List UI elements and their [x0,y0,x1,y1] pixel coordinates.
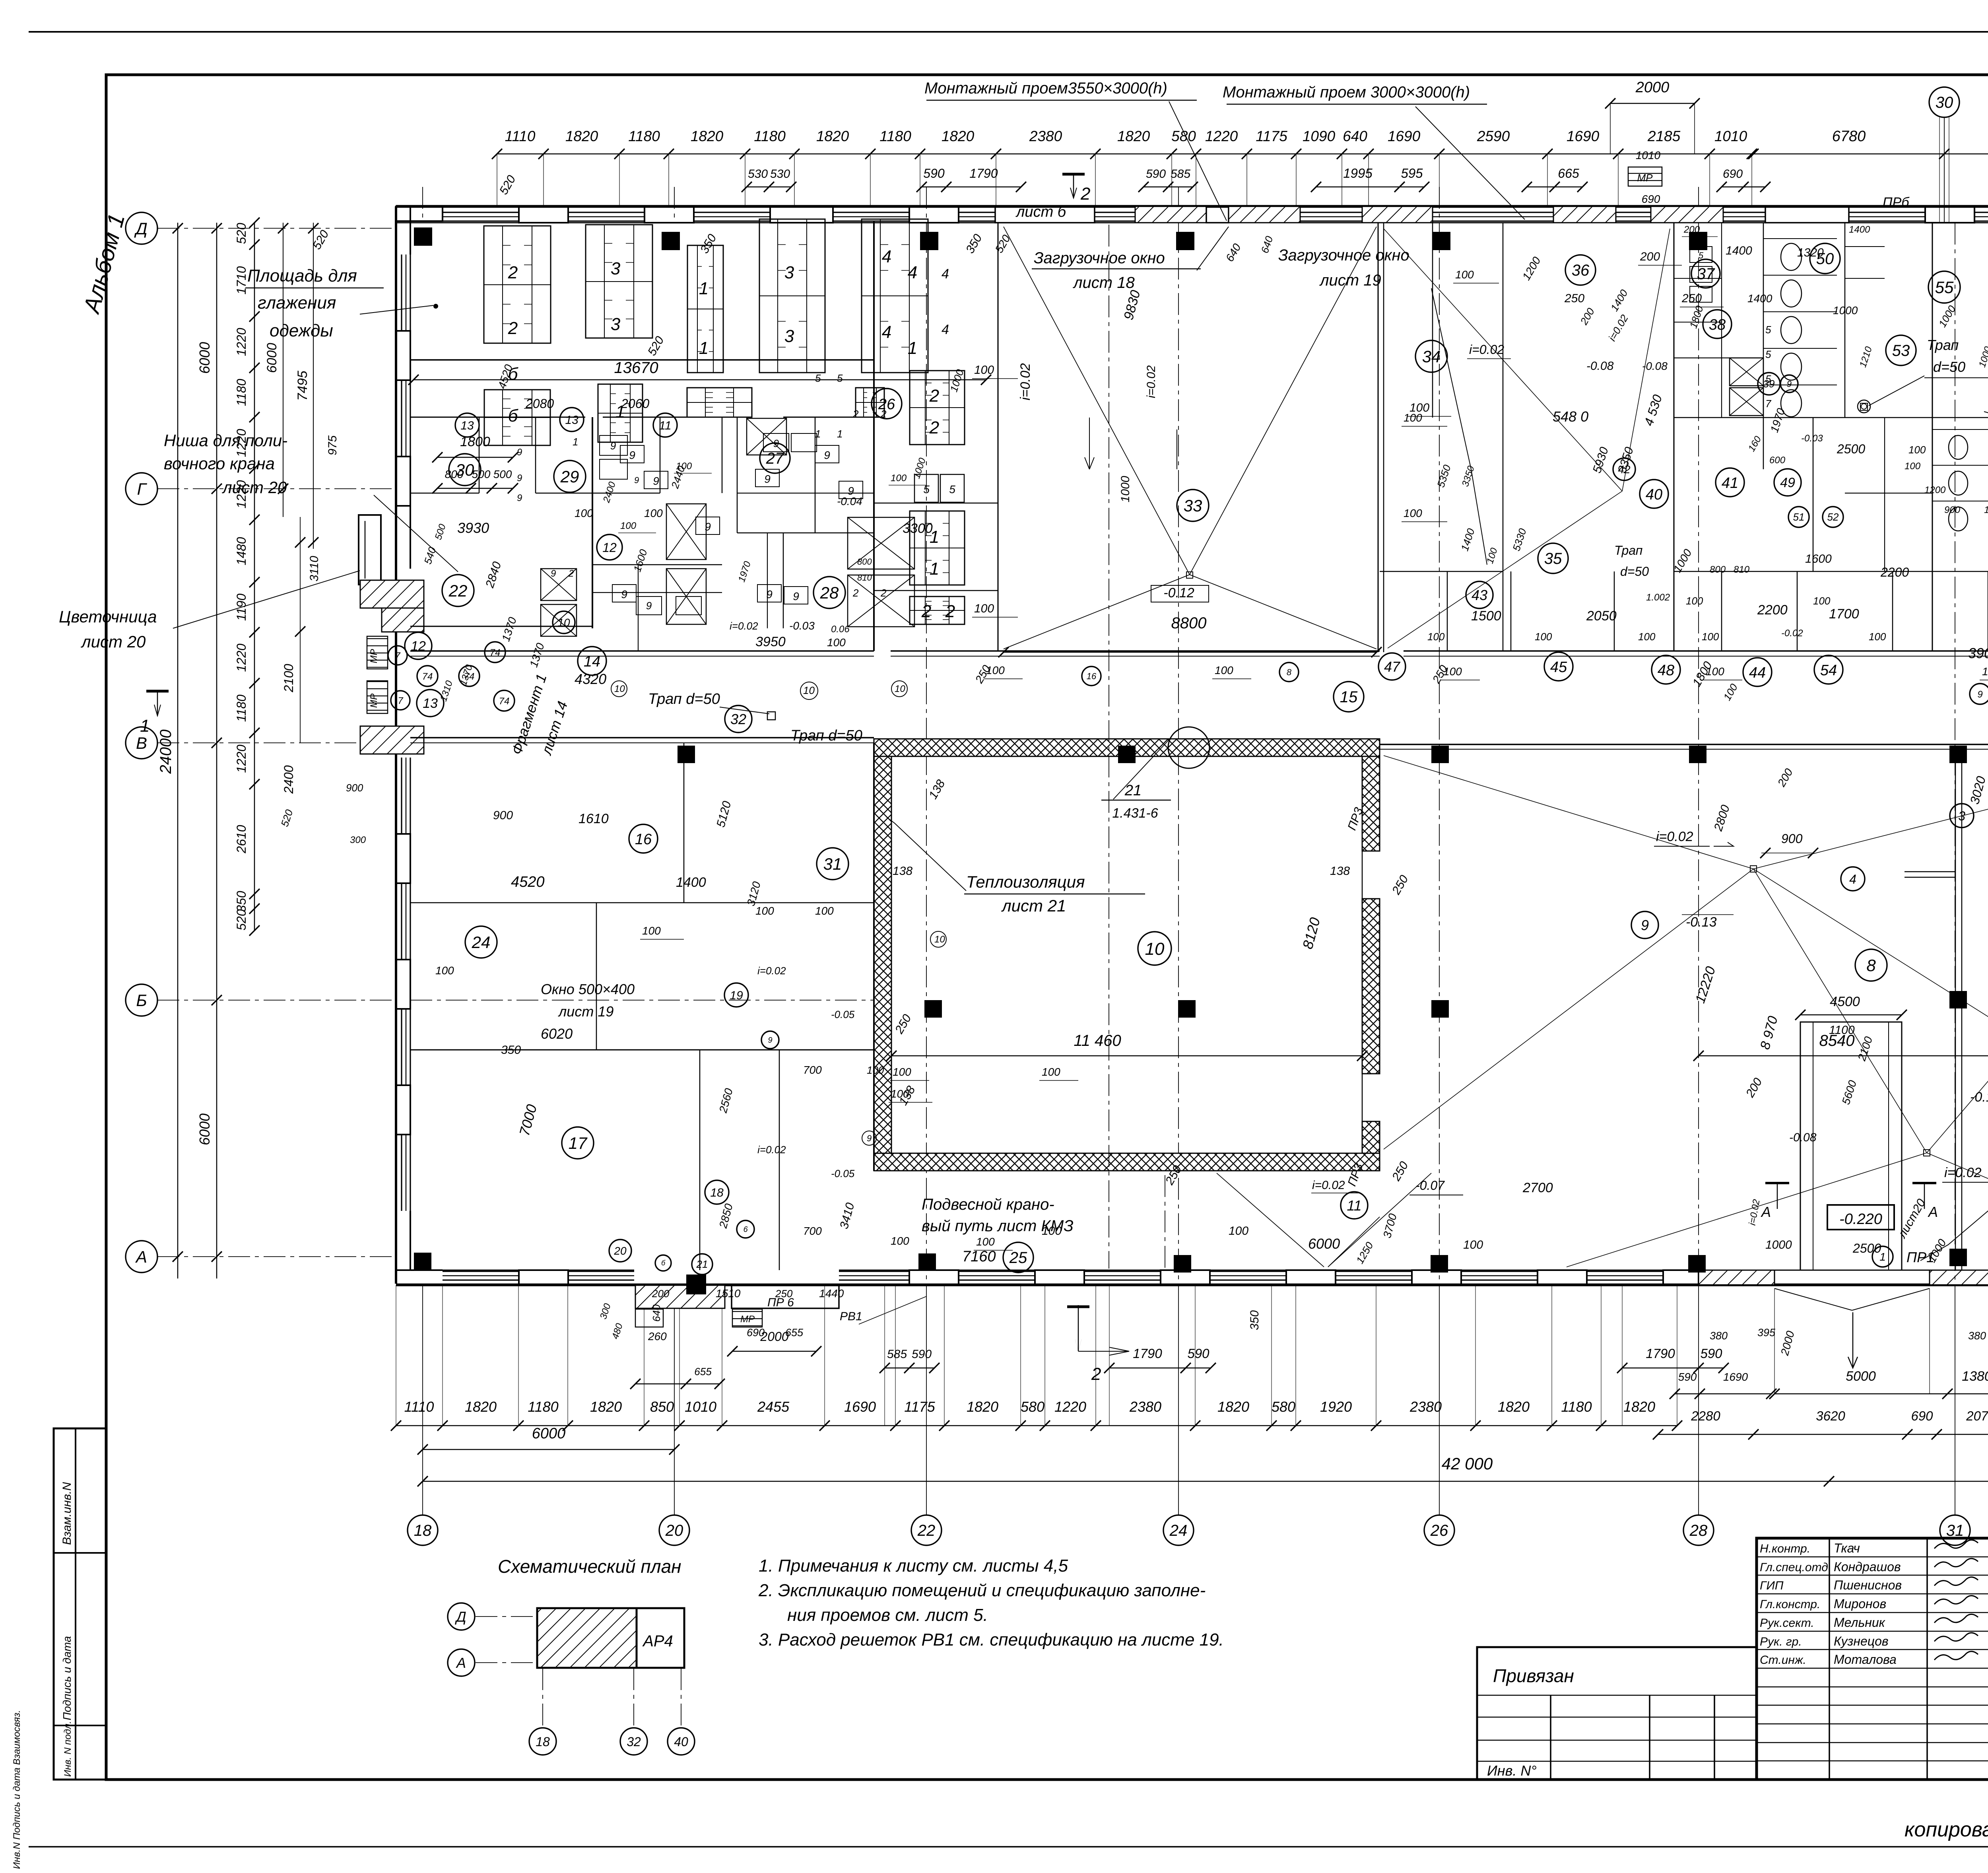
svg-text:1380: 1380 [1962,1369,1988,1384]
svg-text:-0.13: -0.13 [1686,915,1717,930]
svg-text:580: 580 [1021,1399,1044,1415]
svg-text:900: 900 [1944,505,1961,515]
svg-text:i=0.02: i=0.02 [730,620,758,632]
svg-text:Теплоизоляция: Теплоизоляция [966,872,1085,891]
svg-text:1820: 1820 [1623,1399,1655,1415]
svg-text:1690: 1690 [1723,1371,1748,1383]
room 34 structure [1432,223,1433,418]
svg-text:350: 350 [501,1043,521,1057]
svg-text:9: 9 [764,473,771,485]
svg-text:900: 900 [493,809,513,822]
svg-text:9: 9 [1787,379,1792,389]
vertical axis dash-dot lines [926,187,927,1284]
svg-text:2280: 2280 [1691,1409,1720,1423]
top axis circle 30 [1929,87,1959,117]
sanitary room circles [1565,255,1596,285]
svg-text:Моталова: Моталова [1834,1652,1897,1667]
room circles 16/31/24/17/32 [629,824,658,853]
svg-text:4520: 4520 [511,874,545,890]
niche dim 1800 chain [437,457,513,458]
corridor lower wall left [410,737,874,738]
svg-text:43: 43 [1472,587,1487,603]
svg-text:9: 9 [1977,689,1982,700]
room 33 walls [998,223,999,651]
svg-text:100: 100 [1215,664,1233,676]
svg-text:Инв.N Подпись и дата Взаимосвя: Инв.N Подпись и дата Взаимосвяз. [12,1710,22,1869]
svg-text:1820: 1820 [465,1399,497,1415]
svg-text:1010: 1010 [1714,128,1747,144]
svg-text:Ткач: Ткач [1834,1541,1860,1555]
svg-text:АР4: АР4 [642,1632,673,1650]
svg-text:1180: 1180 [754,128,786,144]
room 33 dims [1004,652,1376,653]
svg-text:585: 585 [887,1348,907,1361]
svg-text:20: 20 [613,1245,627,1257]
svg-text:-0.08: -0.08 [1642,360,1668,372]
svg-text:Инв. N подл.: Инв. N подл. [62,1721,73,1777]
svg-text:9: 9 [621,588,627,600]
svg-text:16: 16 [635,831,652,848]
svg-text:2: 2 [880,587,887,599]
svg-text:41: 41 [1722,475,1738,492]
svg-text:3: 3 [784,263,794,282]
svg-text:74: 74 [422,671,433,682]
svg-text:6780: 6780 [1832,128,1866,145]
chamber dim 11460 [891,1055,1362,1057]
svg-text:520: 520 [234,223,248,244]
svg-text:2400: 2400 [282,765,296,794]
svg-text:Инв. N°: Инв. N° [1487,1762,1537,1779]
svg-text:1220: 1220 [1205,128,1238,144]
left letter axis circles [126,212,157,244]
svg-text:22: 22 [448,581,468,600]
svg-text:8800: 8800 [1171,614,1207,632]
svg-text:1600: 1600 [1805,552,1832,565]
svg-text:2500: 2500 [1852,1241,1881,1255]
svg-text:1400: 1400 [1726,244,1752,257]
13670 dim line [414,379,986,381]
svg-text:Площадь для: Площадь для [247,266,357,286]
svg-text:1: 1 [908,338,917,358]
svg-text:37: 37 [1697,265,1715,283]
svg-text:28: 28 [1689,1522,1708,1539]
small 9 shelf boxes [620,445,644,463]
svg-text:200: 200 [1640,250,1660,263]
svg-text:1700: 1700 [1829,606,1859,622]
svg-text:4: 4 [1849,872,1856,886]
svg-text:2700: 2700 [1522,1180,1553,1195]
svg-text:29: 29 [560,467,579,486]
svg-text:4: 4 [882,247,891,266]
svg-text:9: 9 [629,449,635,461]
svg-text:24: 24 [472,933,491,952]
svg-text:лист 20: лист 20 [221,478,287,497]
svg-text:250: 250 [775,1288,793,1300]
svg-text:1820: 1820 [816,128,849,144]
svg-text:i=0.02: i=0.02 [1944,1165,1982,1180]
svg-text:8: 8 [1287,667,1292,677]
room 11 labels [1341,1192,1368,1219]
svg-text:Рук.сект.: Рук.сект. [1760,1617,1814,1630]
bottom axis circles 18-32 [408,1515,438,1545]
svg-text:2050: 2050 [1586,608,1617,624]
svg-text:12: 12 [602,540,617,555]
svg-text:5: 5 [837,372,843,384]
svg-text:1820: 1820 [590,1399,622,1415]
amenity block partitions [873,221,875,651]
svg-text:-0.08: -0.08 [1586,359,1614,373]
svg-text:100: 100 [1686,595,1703,607]
flower niche [359,515,381,585]
svg-text:4: 4 [882,323,891,342]
svg-text:33: 33 [1184,496,1202,515]
svg-text:100: 100 [815,905,834,917]
svg-text:9: 9 [793,590,799,602]
svg-text:2: 2 [929,386,939,406]
svg-text:лист 18: лист 18 [1073,274,1135,291]
letter axis lines inside plan [410,742,874,743]
svg-text:1820: 1820 [1117,128,1150,144]
svg-text:1820: 1820 [565,128,598,144]
svg-text:1180: 1180 [1561,1399,1592,1415]
svg-text:i=0.02: i=0.02 [757,1144,786,1156]
svg-text:2500: 2500 [1837,442,1865,456]
svg-text:690: 690 [1642,193,1660,205]
svg-text:10: 10 [934,934,945,945]
svg-text:2070: 2070 [1966,1409,1988,1423]
svg-text:11: 11 [1347,1197,1361,1214]
schematic axis 18 [529,1728,556,1755]
svg-text:1500: 1500 [1471,608,1501,624]
washroom fixtures with X [666,504,706,560]
svg-text:5: 5 [1765,324,1771,336]
svg-text:9: 9 [768,1036,772,1045]
columns top row [414,227,432,246]
svg-text:Пшениснов: Пшениснов [1834,1578,1902,1592]
svg-text:300: 300 [350,835,366,845]
svg-text:Рук. гр.: Рук. гр. [1760,1635,1802,1648]
svg-text:Гл.спец.отд: Гл.спец.отд [1760,1561,1828,1574]
svg-text:2: 2 [852,587,859,599]
svg-text:1440: 1440 [819,1287,844,1300]
svg-text:22: 22 [917,1522,936,1539]
svg-text:100: 100 [1229,1224,1248,1238]
svg-text:100: 100 [867,1064,884,1076]
top dimension chain row 1 [497,153,1752,155]
bottom dim chain row 1 [396,1425,1677,1426]
north outer wall [396,205,1988,208]
svg-text:100: 100 [435,964,454,977]
svg-text:27: 27 [766,450,784,467]
svg-text:100: 100 [1042,1066,1060,1078]
svg-text:138: 138 [1330,865,1350,878]
svg-text:138: 138 [893,865,912,878]
svg-text:-0.12: -0.12 [1163,585,1194,600]
schematic axis 32 [620,1728,647,1755]
svg-text:548 0: 548 0 [1553,408,1588,425]
svg-text:10: 10 [1145,939,1165,959]
svg-text:100: 100 [1535,631,1552,643]
svg-text:d=50: d=50 [1933,359,1965,375]
svg-text:35: 35 [1544,550,1562,567]
room 33 circle [1177,490,1209,521]
room 34 slope [1384,229,1622,491]
svg-text:9: 9 [551,568,556,579]
svg-text:100: 100 [1455,268,1474,281]
svg-text:100: 100 [1813,595,1831,607]
toilet stalls [1763,238,1837,239]
svg-text:580: 580 [1272,1399,1295,1415]
svg-text:4: 4 [942,322,949,337]
svg-text:590: 590 [1678,1371,1697,1383]
svg-text:100: 100 [1463,1238,1483,1251]
rooms 16/31 partitions [873,743,875,1171]
svg-text:640: 640 [650,1304,662,1322]
svg-text:250: 250 [1681,292,1702,305]
svg-text:4320: 4320 [575,671,606,687]
personnel table columns [1829,1538,1830,1780]
svg-text:590: 590 [1146,167,1166,181]
svg-text:-0.08: -0.08 [1789,1131,1817,1144]
svg-text:9: 9 [517,493,522,503]
svg-text:1220: 1220 [234,744,248,773]
svg-text:40: 40 [1646,486,1662,503]
title block outer [1757,1538,1988,1780]
svg-text:13: 13 [565,414,579,427]
svg-text:9: 9 [773,437,779,449]
svg-text:19: 19 [730,989,743,1002]
svg-text:1690: 1690 [1567,128,1600,144]
svg-text:1790: 1790 [1646,1346,1675,1361]
svg-text:-0.03: -0.03 [789,620,815,632]
svg-text:500: 500 [493,468,512,480]
personnel table rows [1757,1556,1988,1558]
svg-text:590: 590 [923,166,945,181]
svg-text:лист 19: лист 19 [1319,272,1381,289]
left detailed chain [254,223,255,931]
svg-text:850: 850 [650,1399,674,1415]
svg-text:-0.220: -0.220 [1839,1211,1882,1228]
svg-text:3620: 3620 [1816,1409,1845,1423]
svg-text:10: 10 [614,684,625,694]
svg-text:40: 40 [674,1735,688,1749]
svg-text:Подвесной крано-: Подвесной крано- [922,1196,1054,1213]
svg-text:5: 5 [949,483,955,495]
svg-text:200: 200 [652,1288,670,1300]
svg-text:100: 100 [1908,444,1926,456]
svg-text:2185: 2185 [1647,128,1681,144]
svg-text:Кузнецов: Кузнецов [1834,1634,1889,1648]
svg-text:6000: 6000 [196,1113,213,1145]
svg-text:1610: 1610 [579,811,609,826]
svg-text:100: 100 [1042,1224,1062,1238]
svg-text:2: 2 [508,319,518,338]
svg-text:32: 32 [627,1735,641,1749]
corridor lower wall right [1380,744,1988,745]
south tambour [635,1285,725,1308]
svg-text:Ст.инж.: Ст.инж. [1760,1653,1806,1667]
corridor circle 15 [1334,682,1364,712]
svg-text:Д: Д [134,219,148,238]
room 25 crane dash line [1165,1175,1165,1269]
room 33 axis dashdot [1109,225,1109,1269]
svg-text:1820: 1820 [967,1399,998,1415]
svg-text:2: 2 [945,602,955,621]
svg-text:4: 4 [908,263,917,282]
svg-text:А: А [456,1655,466,1671]
svg-text:13670: 13670 [614,359,658,377]
svg-text:10: 10 [557,616,570,629]
chamber door jambs ПР3 [1362,851,1380,852]
svg-text:лист 20: лист 20 [80,632,146,651]
svg-text:1220: 1220 [234,643,248,672]
svg-text:6000: 6000 [196,342,213,374]
svg-text:Трап: Трап [1927,337,1959,353]
svg-text:100: 100 [1984,505,1988,515]
room 25 drain diagonals [1217,1173,1324,1267]
svg-text:900: 900 [346,782,363,794]
svg-text:52: 52 [1827,511,1839,523]
svg-text:1710: 1710 [234,266,248,294]
svg-text:2380: 2380 [1409,1399,1442,1415]
svg-text:3300: 3300 [903,521,933,536]
svg-text:б: б [508,406,519,426]
svg-text:100: 100 [755,905,774,917]
svg-text:100: 100 [827,636,846,649]
svg-text:Привязан: Привязан [1493,1665,1574,1686]
svg-text:Г: Г [137,480,148,498]
svg-text:Трап: Трап [1614,543,1642,558]
svg-text:100: 100 [1905,461,1921,472]
svg-text:13: 13 [423,696,438,711]
svg-text:1175: 1175 [1256,128,1287,144]
schematic axis Д [448,1603,475,1630]
detail circle 21 on chamber wall [1168,727,1209,768]
svg-text:3900: 3900 [1968,645,1988,661]
svg-text:i=0.02: i=0.02 [1145,365,1158,398]
svg-text:700: 700 [803,1064,822,1076]
svg-text:11 460: 11 460 [1074,1032,1121,1049]
svg-text:5: 5 [815,372,821,384]
trap mid symbols [1860,403,1868,410]
svg-text:А: А [135,1247,147,1266]
svg-text:Монтажный проем 3000×3000(h): Монтажный проем 3000×3000(h) [1223,84,1470,101]
svg-text:530: 530 [748,167,768,181]
svg-text:580: 580 [1171,128,1196,144]
top right chain 6780/5480/850 [1753,153,1988,155]
svg-text:ГИП: ГИП [1760,1579,1784,1592]
svg-text:600: 600 [1769,455,1786,466]
room 33 slope diagonals [1004,227,1190,575]
section flag 2 top [1062,173,1085,176]
first floor rack row (ironing room) [484,226,551,343]
left letter-axis chain [216,223,217,1278]
svg-text:А: А [1928,1204,1938,1220]
svg-text:5: 5 [1765,373,1771,385]
svg-text:665: 665 [1558,166,1579,181]
svg-text:100: 100 [891,1235,909,1247]
svg-text:1: 1 [837,428,843,440]
svg-text:МР: МР [369,694,379,708]
svg-text:100: 100 [1982,665,1988,678]
chamber inner rect [891,756,1362,1153]
svg-text:i=0.02: i=0.02 [1312,1179,1345,1192]
svg-text:i=0.02: i=0.02 [1656,829,1693,844]
svg-text:-0.13: -0.13 [1970,1090,1988,1105]
right area slope diagonals upper [1384,756,1753,869]
bottom chain row 2 [423,1449,674,1450]
insulated chamber walls (cross-hatched) [874,739,1380,756]
svg-text:3950: 3950 [755,634,786,649]
svg-text:Трап d=50: Трап d=50 [648,691,720,707]
left local dims 6000/7495 [283,223,283,517]
2000 dim top [1610,103,1695,104]
svg-text:250: 250 [1564,292,1584,305]
svg-text:1: 1 [930,559,939,579]
svg-text:Цветочница: Цветочница [59,607,157,626]
top chain extension lines [497,154,497,206]
svg-text:18: 18 [414,1522,432,1539]
svg-text:9: 9 [1641,917,1649,933]
svg-text:55: 55 [1935,278,1954,297]
svg-text:1: 1 [815,428,821,440]
svg-text:28: 28 [820,583,839,602]
svg-text:1920: 1920 [1320,1399,1352,1415]
svg-text:1200: 1200 [1924,485,1946,495]
schematic axis А [448,1649,475,1676]
svg-text:810: 810 [1734,564,1750,575]
svg-text:2200: 2200 [1880,565,1909,579]
svg-text:2: 2 [929,418,939,437]
room 10 circle [1138,932,1171,965]
svg-text:34: 34 [1422,347,1441,366]
svg-text:30: 30 [1936,94,1953,111]
svg-text:350: 350 [1248,1310,1261,1330]
svg-text:1180: 1180 [879,128,911,144]
svg-text:975: 975 [326,435,339,455]
level box -0.220 [1827,1205,1894,1230]
svg-text:Н.контр.: Н.контр. [1760,1542,1810,1555]
svg-text:3. Расход решеток РВ1 см.: 3. Расход решеток РВ1 см. спецификацию н… [759,1630,1224,1650]
svg-text:100: 100 [620,521,637,531]
second rack row [484,390,550,445]
svg-text:i=0.02: i=0.02 [1018,363,1033,400]
svg-text:350: 350 [234,891,248,912]
svg-text:590: 590 [1187,1346,1209,1361]
svg-text:100: 100 [974,363,994,377]
svg-text:6: 6 [743,1225,748,1234]
svg-text:3930: 3930 [457,520,489,536]
svg-text:Д: Д [454,1609,466,1625]
svg-text:1690: 1690 [1388,128,1421,144]
svg-text:10: 10 [803,684,815,696]
svg-text:Монтажный проем3550×3000(h): Монтажный проем3550×3000(h) [924,80,1167,97]
svg-text:6020: 6020 [541,1026,573,1042]
svg-text:530: 530 [770,167,790,181]
svg-text:100: 100 [976,1236,995,1248]
svg-text:51: 51 [1793,511,1805,523]
svg-text:690: 690 [1911,1409,1933,1423]
svg-text:655: 655 [694,1366,712,1378]
columns south row [414,1253,431,1270]
svg-text:74: 74 [499,696,510,707]
svg-text:Окно 500×400: Окно 500×400 [541,981,635,997]
svg-text:42 000: 42 000 [1442,1454,1493,1473]
svg-text:МР: МР [1637,172,1653,184]
svg-text:1790: 1790 [969,166,998,181]
svg-text:1180: 1180 [234,694,248,722]
svg-text:2. Экспликацию помещений и: 2. Экспликацию помещений и спецификацию … [758,1581,1206,1600]
